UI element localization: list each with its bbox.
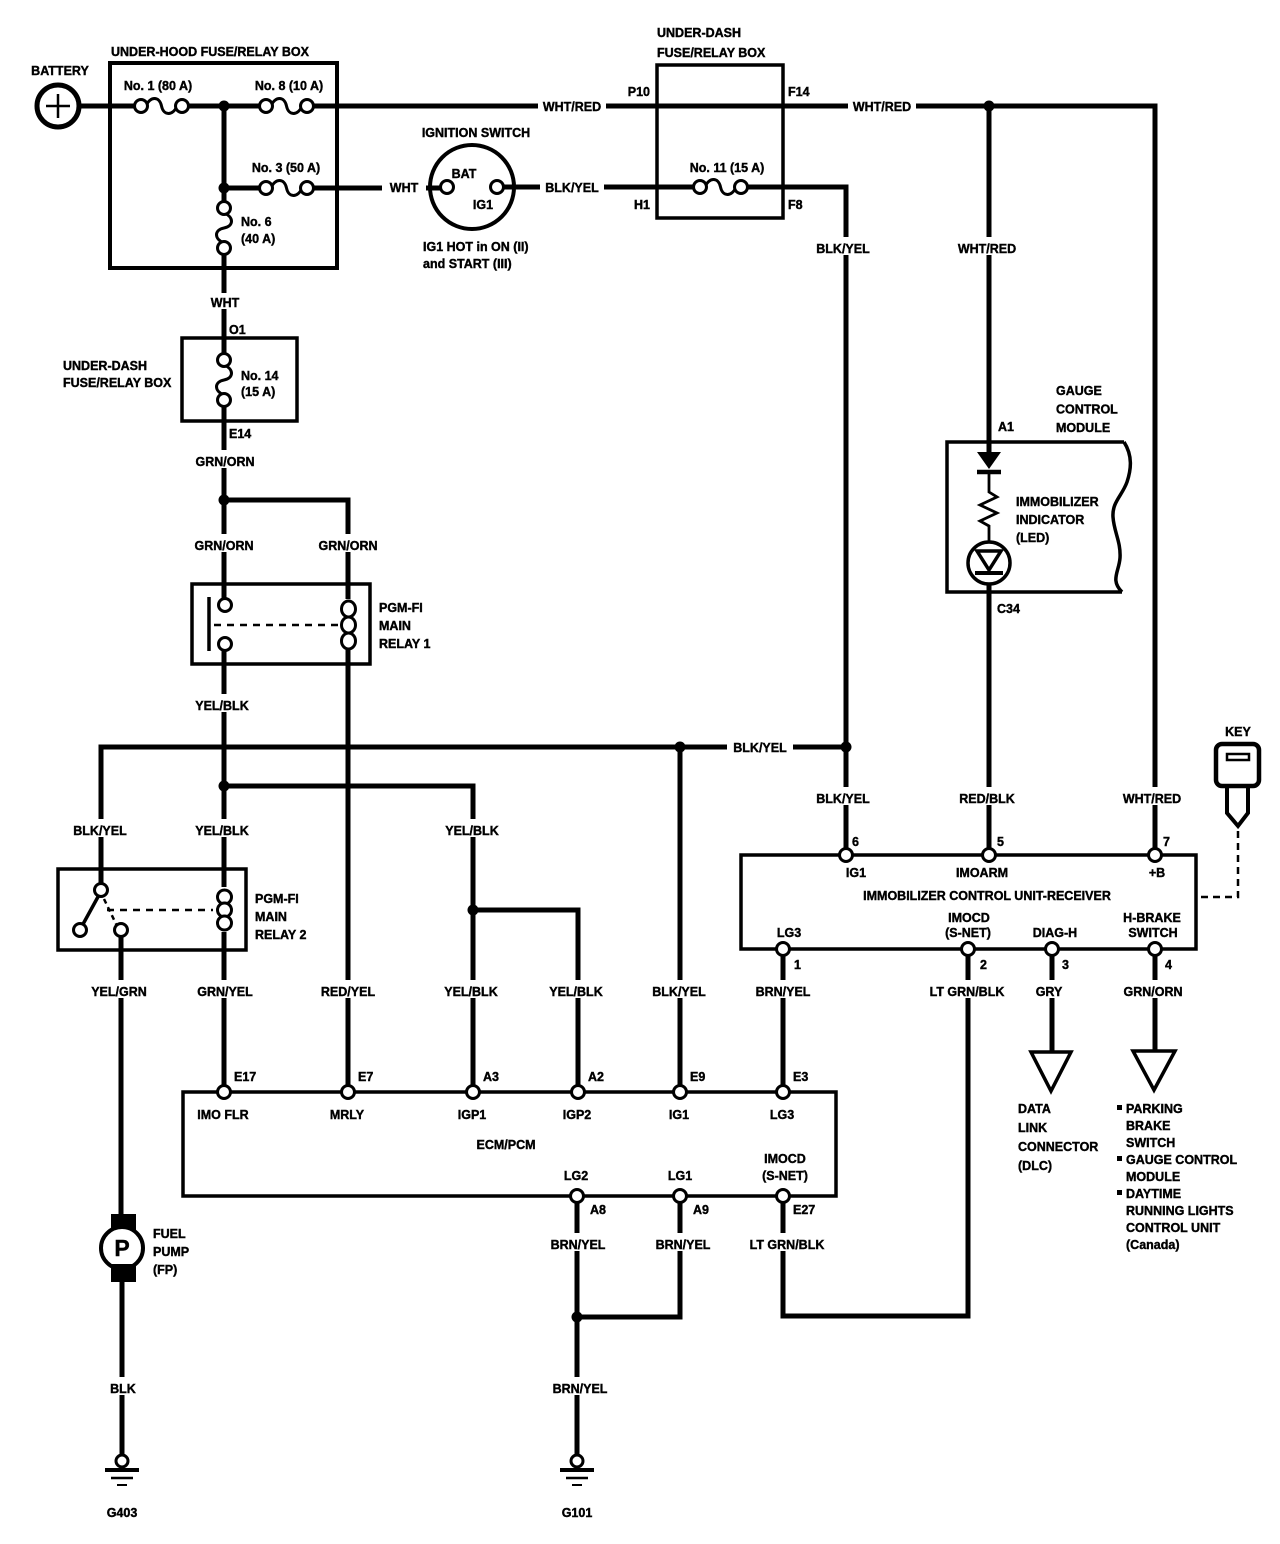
svg-text:+B: +B [1149, 866, 1165, 880]
under-dash fuse/relay box (left) [182, 338, 297, 421]
svg-text:IGNITION SWITCH: IGNITION SWITCH [422, 126, 530, 140]
svg-text:3: 3 [1062, 958, 1069, 972]
immobilizer pin 6 IG1 [840, 849, 853, 862]
svg-text:YEL/BLK: YEL/BLK [444, 985, 497, 999]
immobilizer pin 7 +B [1149, 849, 1162, 862]
wire label BLK/YEL [648, 980, 710, 998]
svg-text:BATTERY: BATTERY [31, 64, 89, 78]
wire: immobilizer pin 1 BRN/YEL to ECM pin E3 [781, 956, 786, 1085]
svg-text:DIAG-H: DIAG-H [1033, 926, 1077, 940]
svg-text:GRN/ORN: GRN/ORN [1123, 985, 1182, 999]
junction: A8/A9 BRN/YEL merge [572, 1312, 583, 1323]
svg-text:F8: F8 [788, 198, 803, 212]
svg-text:LG2: LG2 [564, 1169, 588, 1183]
svg-text:IMMOBILIZER: IMMOBILIZER [1016, 495, 1099, 509]
gauge control module box (torn edge) [947, 442, 1124, 592]
svg-text:IGP2: IGP2 [563, 1108, 592, 1122]
junction: GRN/ORN split to relay 1 coil [219, 495, 230, 506]
svg-text:YEL/GRN: YEL/GRN [91, 985, 147, 999]
svg-text:BLK: BLK [110, 1382, 136, 1396]
svg-text:PGM-FI: PGM-FI [255, 892, 299, 906]
fuse No. 6 (40 A) [215, 213, 233, 243]
svg-text:1: 1 [794, 958, 801, 972]
svg-text:BLK/YEL: BLK/YEL [733, 741, 787, 755]
wire label YEL/GRN [88, 980, 150, 998]
fuse No. 8 (10 A) [271, 97, 302, 115]
svg-text:MAIN: MAIN [255, 910, 287, 924]
svg-text:WHT: WHT [390, 181, 419, 195]
svg-text:GRN/ORN: GRN/ORN [194, 539, 253, 553]
svg-text:No. 11 (15 A): No. 11 (15 A) [690, 161, 765, 175]
svg-text:DATA: DATA [1018, 1102, 1051, 1116]
wire label YEL/BLK [545, 980, 607, 998]
wire label WHT (fuse No.3 to ignition BAT) [382, 178, 426, 196]
wire: YEL/BLK branch at junction to ECM pin A3 [224, 786, 473, 1085]
wire: WHT/RED branch to gauge control module A1 [987, 106, 992, 452]
svg-text:A3: A3 [483, 1070, 499, 1084]
ECM/PCM box [183, 1092, 836, 1196]
svg-text:5: 5 [997, 835, 1004, 849]
svg-text:IMO FLR: IMO FLR [197, 1108, 248, 1122]
ECM pin E3 LG3 [777, 1086, 790, 1099]
wire: BLK/YEL drop to ECM pin E9 [678, 747, 683, 1085]
svg-text:A1: A1 [998, 420, 1014, 434]
ECM pin E7 MRLY [342, 1086, 355, 1099]
ECM pin A9 LG1 [674, 1190, 687, 1203]
svg-text:G403: G403 [107, 1506, 138, 1520]
svg-text:BLK/YEL: BLK/YEL [816, 242, 870, 256]
svg-text:LT GRN/BLK: LT GRN/BLK [930, 985, 1005, 999]
fuse No. 14 (15 A) [215, 365, 233, 395]
immobilizer pin 5 IMOARM [983, 849, 996, 862]
svg-text:RED/YEL: RED/YEL [321, 985, 376, 999]
ignition switch [430, 145, 514, 229]
svg-text:P10: P10 [628, 85, 650, 99]
wire label BRN/YEL [752, 980, 814, 998]
svg-text:(Canada): (Canada) [1126, 1238, 1179, 1252]
wire label BLK/YEL (to pin 6) [812, 787, 874, 805]
fuse No. 3 (50 A) [271, 179, 302, 197]
under-dash fuse/relay box (top) [657, 65, 783, 218]
svg-text:IMMOBILIZER CONTROL UNIT-RECEI: IMMOBILIZER CONTROL UNIT-RECEIVER [863, 889, 1111, 903]
wire: IG1 output BLK/YEL through No.11 fuse, drop to immobilizer IG1 pin 6 [497, 187, 846, 851]
svg-text:(S-NET): (S-NET) [945, 926, 991, 940]
battery B+ terminal [37, 85, 79, 127]
junction: WHT/RED rail to gauge module branch [984, 101, 995, 112]
svg-text:GRN/ORN: GRN/ORN [195, 455, 254, 469]
svg-text:FUEL: FUEL [153, 1227, 186, 1241]
svg-text:INDICATOR: INDICATOR [1016, 513, 1084, 527]
svg-text:ECM/PCM: ECM/PCM [476, 1138, 535, 1152]
svg-text:(15 A): (15 A) [241, 385, 275, 399]
svg-text:F14: F14 [788, 85, 810, 99]
wire label GRN/YEL [194, 980, 256, 998]
wire: fuel pump BLK to ground G403 [120, 1280, 125, 1456]
immobilizer control unit-receiver box [741, 855, 1196, 949]
fuse No. 11 (15 A) [705, 178, 736, 196]
immobilizer indicator LED [968, 542, 1010, 584]
svg-text:RUNNING LIGHTS: RUNNING LIGHTS [1126, 1204, 1234, 1218]
svg-text:GAUGE: GAUGE [1056, 384, 1102, 398]
svg-text:C34: C34 [997, 602, 1020, 616]
wire label GRN/ORN (pin 4) [1119, 980, 1187, 998]
svg-text:WHT/RED: WHT/RED [543, 100, 601, 114]
svg-text:CONNECTOR: CONNECTOR [1018, 1140, 1098, 1154]
svg-text:IGP1: IGP1 [458, 1108, 487, 1122]
svg-text:RELAY 2: RELAY 2 [255, 928, 306, 942]
svg-text:7: 7 [1163, 835, 1170, 849]
svg-text:MODULE: MODULE [1126, 1170, 1180, 1184]
PGM-FI main relay 1 [192, 584, 370, 664]
wire: YEL/BLK branch to ECM pin A2 [473, 910, 578, 1085]
immobilizer pin 1 LG3 [777, 943, 790, 956]
wire label WHT/RED (to pin 7) [1118, 787, 1186, 805]
off-page arrow to parking brake switch / gauge control module / DRL unit [1133, 1051, 1175, 1090]
svg-text:LG3: LG3 [770, 1108, 794, 1122]
wire: immobilizer pin 4 GRN/ORN to parking brake switch etc [1153, 956, 1158, 1051]
svg-text:GRY: GRY [1036, 985, 1063, 999]
wire label BLK/YEL (F8 drop upper) [812, 237, 874, 255]
svg-text:WHT/RED: WHT/RED [853, 100, 911, 114]
under-hood fuse/relay box [110, 63, 337, 268]
wire label BRN/YEL (to G101) [549, 1377, 611, 1395]
svg-text:O1: O1 [229, 323, 246, 337]
fuel pump FP [111, 1214, 136, 1232]
svg-text:BRAKE: BRAKE [1126, 1119, 1170, 1133]
svg-text:FUSE/RELAY BOX: FUSE/RELAY BOX [657, 46, 766, 60]
wire label GRY (pin 3) [1032, 980, 1068, 998]
wire: gauge module LED output RED/BLK to immobilizer pin 5 IMOARM [987, 584, 992, 851]
svg-text:IMOCD: IMOCD [948, 911, 990, 925]
wire label RED/YEL [317, 980, 379, 998]
junction: battery bus at No.1/No.8 fuses [219, 101, 230, 112]
svg-text:BLK/YEL: BLK/YEL [652, 985, 706, 999]
ECM pin A3 IGP1 [467, 1086, 480, 1099]
svg-text:UNDER-DASH: UNDER-DASH [63, 359, 147, 373]
wire: GRN/ORN branch to relay 1 coil, RED/YEL down to ECM pin E7 [224, 500, 348, 1085]
fuse No. 1 (80 A) [146, 97, 177, 115]
svg-text:DAYTIME: DAYTIME [1126, 1187, 1181, 1201]
svg-text:LINK: LINK [1018, 1121, 1047, 1135]
svg-text:FUSE/RELAY BOX: FUSE/RELAY BOX [63, 376, 172, 390]
junction: WHT bus at No.3 fuse [219, 183, 230, 194]
wire label GRN/ORN (left branch) [193, 534, 255, 552]
svg-text:SWITCH: SWITCH [1126, 1136, 1175, 1150]
svg-text:BLK/YEL: BLK/YEL [73, 824, 127, 838]
immobilizer pin 3 DIAG-H [1046, 943, 1059, 956]
svg-text:IG1: IG1 [846, 866, 866, 880]
ECM pin E17 IMO FLR [218, 1086, 231, 1099]
svg-text:WHT/RED: WHT/RED [958, 242, 1016, 256]
wire: immobilizer pin 3 GRY to data link connector [1050, 956, 1055, 1052]
svg-text:E14: E14 [229, 427, 251, 441]
svg-text:GRN/ORN: GRN/ORN [318, 539, 377, 553]
ECM pin A2 IGP2 [572, 1086, 585, 1099]
wire: relay 1 contact output YEL/BLK down to ECM pin E17 via relay 2 coil [222, 648, 227, 1085]
svg-text:RELAY 1: RELAY 1 [379, 637, 430, 651]
wire label WHT/RED (gauge branch) [953, 237, 1021, 255]
svg-text:BRN/YEL: BRN/YEL [551, 1238, 606, 1252]
svg-text:UNDER-DASH: UNDER-DASH [657, 26, 741, 40]
svg-text:SWITCH: SWITCH [1128, 926, 1177, 940]
svg-text:IG1 HOT in ON (II): IG1 HOT in ON (II) [423, 240, 529, 254]
svg-text:YEL/BLK: YEL/BLK [445, 824, 498, 838]
svg-text:E3: E3 [793, 1070, 808, 1084]
wire label GRN/ORN (right branch) [317, 534, 379, 552]
svg-text:WHT/RED: WHT/RED [1123, 792, 1181, 806]
svg-text:(FP): (FP) [153, 1263, 177, 1277]
wire: battery feed WHT/RED top rail and right drop to +B [79, 106, 1155, 851]
svg-text:2: 2 [980, 958, 987, 972]
svg-text:PGM-FI: PGM-FI [379, 601, 423, 615]
wire: relay 2 output YEL/GRN to fuel pump [119, 936, 124, 1216]
svg-text:BLK/YEL: BLK/YEL [816, 792, 870, 806]
wire: immobilizer pin 2 IMOCD S-NET LT GRN/BLK loop to ECM pin E27 [783, 956, 968, 1316]
svg-text:and START (III): and START (III) [423, 257, 512, 271]
svg-text:A8: A8 [590, 1203, 606, 1217]
svg-text:BRN/YEL: BRN/YEL [656, 1238, 711, 1252]
wire label YEL/BLK (relay 1 output) [191, 694, 253, 712]
svg-text:P: P [114, 1235, 129, 1261]
svg-text:GAUGE CONTROL: GAUGE CONTROL [1126, 1153, 1237, 1167]
wire label BLK (to G403) [106, 1377, 142, 1395]
svg-text:PUMP: PUMP [153, 1245, 189, 1259]
wire label BLK/YEL (IG1 to H1) [540, 178, 604, 196]
wire: ECM pin A9 BRN/YEL joining A8 wire [577, 1196, 680, 1317]
wire: BLK/YEL horizontal rail to relay 2 switch [101, 747, 846, 884]
ECM pin A8 LG2 [571, 1190, 584, 1203]
svg-text:MAIN: MAIN [379, 619, 411, 633]
svg-text:H1: H1 [634, 198, 650, 212]
svg-text:No. 3 (50 A): No. 3 (50 A) [252, 161, 320, 175]
svg-text:LG3: LG3 [777, 926, 801, 940]
svg-text:E9: E9 [690, 1070, 705, 1084]
wire label RED/BLK (to pin 5) [956, 787, 1018, 805]
svg-text:No. 8 (10 A): No. 8 (10 A) [255, 79, 323, 93]
svg-text:GRN/YEL: GRN/YEL [197, 985, 253, 999]
svg-text:CONTROL: CONTROL [1056, 403, 1118, 417]
svg-text:(DLC): (DLC) [1018, 1159, 1052, 1173]
junction: BLK/YEL rail at vertical from F8 [841, 742, 852, 753]
svg-text:MRLY: MRLY [330, 1108, 365, 1122]
svg-text:WHT: WHT [211, 296, 240, 310]
svg-text:No. 14: No. 14 [241, 369, 279, 383]
ECM pin E9 IG1 [674, 1086, 687, 1099]
wire label BRN/YEL (A8) [547, 1233, 609, 1251]
svg-text:4: 4 [1165, 958, 1172, 972]
svg-text:LG1: LG1 [668, 1169, 692, 1183]
ground G403 [116, 1455, 128, 1467]
svg-text:(S-NET): (S-NET) [762, 1169, 808, 1183]
svg-text:YEL/BLK: YEL/BLK [195, 824, 248, 838]
wire label YEL/BLK (branch to A3) [441, 819, 503, 837]
svg-text:LT GRN/BLK: LT GRN/BLK [750, 1238, 825, 1252]
wire label LT GRN/BLK (E27) [746, 1233, 830, 1251]
wire label YEL/BLK [440, 980, 502, 998]
svg-text:PARKING: PARKING [1126, 1102, 1183, 1116]
junction: YEL/BLK split to A2 [468, 905, 479, 916]
immobilizer pin 4 H-BRAKE SWITCH [1149, 943, 1162, 956]
wire label BLK/YEL (rail to relay 2) [69, 819, 131, 837]
wire label LT GRN/BLK (pin 2) [926, 980, 1010, 998]
svg-text:No. 6: No. 6 [241, 215, 272, 229]
svg-text:BLK/YEL: BLK/YEL [545, 181, 599, 195]
svg-text:(40 A): (40 A) [241, 232, 275, 246]
ECM pin E27 IMOCD S-NET [777, 1190, 790, 1203]
svg-text:MODULE: MODULE [1056, 421, 1110, 435]
svg-text:IG1: IG1 [669, 1108, 689, 1122]
wire: under-hood vertical WHT bus to No.6 and No.14 fuses, GRN/ORN to relay 1 contact [222, 106, 227, 601]
svg-text:G101: G101 [562, 1506, 593, 1520]
svg-text:E27: E27 [793, 1203, 815, 1217]
svg-text:6: 6 [852, 835, 859, 849]
immobilizer pin 2 IMOCD S-NET [962, 943, 975, 956]
svg-text:IMOARM: IMOARM [956, 866, 1008, 880]
off-page arrow to data link connector (DLC) [1031, 1052, 1071, 1091]
svg-text:UNDER-HOOD FUSE/RELAY BOX: UNDER-HOOD FUSE/RELAY BOX [111, 45, 310, 59]
wire label GRN/ORN (E14 down) [194, 450, 256, 468]
svg-text:BRN/YEL: BRN/YEL [553, 1382, 608, 1396]
wire label BLK/YEL (inline on rail) [727, 736, 793, 755]
junction: BLK/YEL rail to E9 drop [675, 742, 686, 753]
wire label WHT (under-hood box to No.14) [204, 293, 246, 309]
diode (immobilizer indicator feed) [977, 452, 1001, 469]
svg-text:No. 1 (80 A): No. 1 (80 A) [124, 79, 192, 93]
svg-text:(LED): (LED) [1016, 531, 1049, 545]
svg-text:BAT: BAT [452, 167, 477, 181]
svg-text:KEY: KEY [1225, 725, 1251, 739]
wire: fuse No.3 output WHT through ignition switch row [224, 186, 447, 191]
wire label BRN/YEL (A9) [652, 1233, 714, 1251]
wire label WHT/RED (under-dash to gauge) [848, 97, 916, 115]
svg-text:IG1: IG1 [473, 198, 493, 212]
svg-text:YEL/BLK: YEL/BLK [195, 699, 248, 713]
ground G101 [571, 1455, 583, 1467]
resistor (LED series) [980, 472, 997, 545]
svg-text:CONTROL UNIT: CONTROL UNIT [1126, 1221, 1221, 1235]
junction: YEL/BLK branch from relay 1 output [219, 781, 230, 792]
svg-text:H-BRAKE: H-BRAKE [1123, 911, 1181, 925]
svg-text:E17: E17 [234, 1070, 256, 1084]
svg-text:A9: A9 [693, 1203, 709, 1217]
svg-text:RED/BLK: RED/BLK [959, 792, 1015, 806]
svg-text:IMOCD: IMOCD [764, 1152, 806, 1166]
wire label WHT/RED (under-hood to under-dash) [538, 97, 606, 115]
wire label YEL/BLK (relay 2 coil feed) [191, 819, 253, 837]
svg-text:E7: E7 [358, 1070, 373, 1084]
svg-text:A2: A2 [588, 1070, 604, 1084]
svg-text:YEL/BLK: YEL/BLK [549, 985, 602, 999]
svg-text:BRN/YEL: BRN/YEL [756, 985, 811, 999]
PGM-FI main relay 2 [58, 869, 246, 950]
wire: ECM pin A8 BRN/YEL to ground G101 [575, 1196, 580, 1456]
